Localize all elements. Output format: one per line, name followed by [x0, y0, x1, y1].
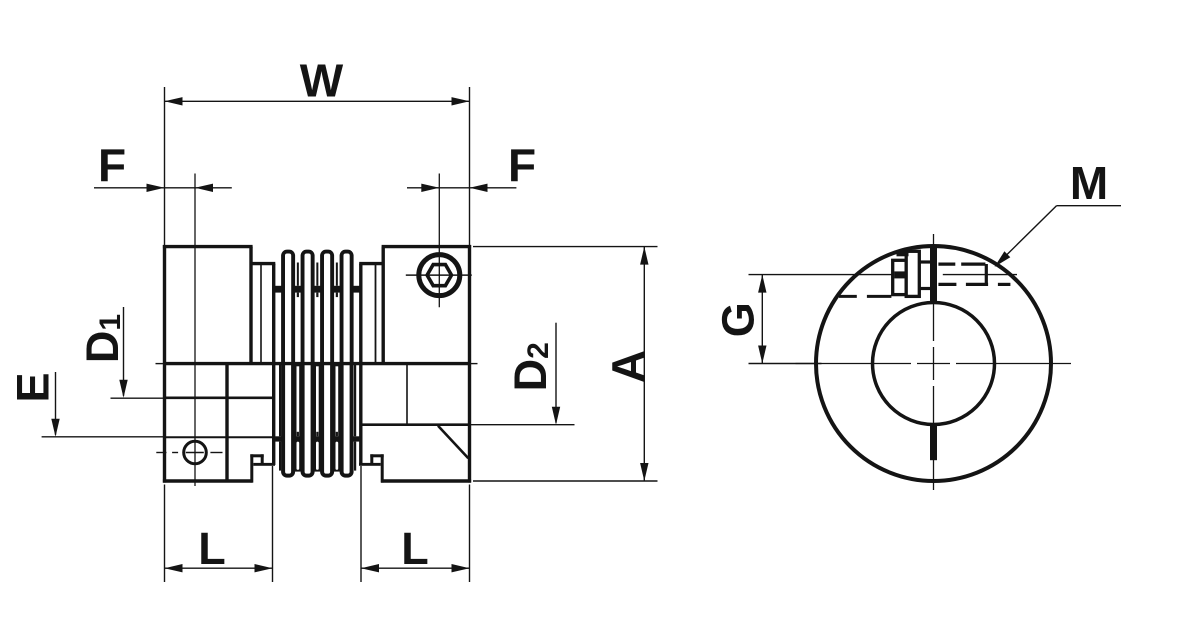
dimension D2 arrow line: [555, 323, 557, 423]
right collar inner edge (thin): [375, 264, 377, 364]
bellows upper valley fold line 2: [297, 263, 299, 286]
left clamp screw hole circle: [184, 441, 207, 464]
dimension F-left tail right: [195, 187, 232, 189]
bellows upper valley stub 2: [297, 293, 299, 298]
dimension F-left middle segment: [165, 187, 196, 189]
hidden thread hole top dashes: [938, 263, 955, 266]
bellows convolution 4 lower crest (section): [342, 364, 352, 475]
bellows upper valley band 5: [353, 286, 360, 293]
bellows lower left end section wall: [279, 364, 281, 436]
bore chamfer diagonal right hub: [438, 426, 468, 459]
right collar divider (thin, lower half): [406, 364, 408, 425]
bellows lower valley band 3: [314, 436, 321, 441]
bellows convolution 3 lower crest (section): [322, 364, 332, 475]
bellows upper valley fold line 3: [316, 263, 318, 286]
right collar hook right leg: [381, 454, 384, 482]
dimension A extension line bottom: [473, 480, 658, 482]
front view bottom slit bar: [930, 424, 937, 460]
dimension F-left tail left: [94, 187, 165, 189]
bellows convolution 2 lower crest (section): [303, 364, 313, 475]
dimension D1 extension line: [111, 397, 165, 399]
dimension W arrow right: [452, 97, 470, 105]
dimension F-left arrow left: [147, 184, 165, 192]
dimension W extension line right: [469, 87, 471, 245]
svg-text:E: E: [8, 372, 59, 402]
right collar upper-half left edge: [359, 264, 362, 364]
bore line D2 (right hub section): [361, 423, 470, 426]
dimension F-right arrow left: [421, 184, 439, 192]
centerline tick right: [470, 363, 478, 365]
left screw centerline dashes: [156, 452, 166, 454]
bellows section slot 2 lower white: [297, 442, 300, 470]
dimension D2 extension line: [470, 424, 575, 426]
left screw axis extension line: [194, 174, 196, 487]
label M leader arrow: [995, 251, 1011, 267]
left collar right edge: [272, 264, 275, 465]
right collar lower-half left edge: [359, 364, 362, 465]
screw head box: [906, 251, 919, 296]
bellows lower right end band: [353, 436, 359, 441]
right screw axis extension line: [438, 174, 440, 308]
svg-text:W: W: [300, 55, 344, 107]
dimension W arrow left: [165, 97, 183, 105]
bellows lower left end band: [275, 436, 282, 441]
front view bore circle: [873, 303, 995, 425]
hidden counterbore dash lower: [839, 295, 857, 298]
bellows section slot 4 upper white: [336, 366, 339, 436]
dimension E extension line: [42, 436, 165, 438]
bellows convolution 3 upper crest: [322, 252, 332, 363]
bellows lower valley band 4: [334, 436, 341, 441]
bellows section slot 3 lower white: [316, 442, 319, 470]
left collar hook short vertical: [261, 454, 264, 465]
dimension W line: [165, 100, 470, 102]
bellows upper valley fold line 4: [336, 263, 338, 286]
dimension L-left extension line right: [272, 466, 274, 582]
bellows lower valley band 2: [295, 436, 302, 441]
screw socket divider bar: [894, 271, 905, 278]
left hub right edge (upper half): [249, 247, 252, 364]
bore line D1 (left hub section): [165, 396, 274, 399]
left collar top edge: [251, 262, 275, 265]
dimension L-left arrow right: [255, 564, 273, 572]
dimension E arrow line: [55, 372, 57, 435]
dimension A arrow top: [640, 247, 648, 265]
front view vertical centerline: [933, 234, 935, 341]
dimension G extension line bottom: [749, 363, 822, 365]
right hub bottom edge: [381, 479, 471, 482]
bellows upper valley band 2: [295, 286, 302, 293]
left hub/collar divider (lower half): [225, 364, 228, 481]
dimension D1 arrow: [119, 380, 127, 398]
dimension A arrow bottom: [640, 463, 648, 481]
svg-text:L: L: [198, 523, 226, 574]
bellows section slot 3 upper white: [316, 366, 319, 436]
slit line left hub: [165, 436, 274, 438]
right collar hook bottom bar: [359, 463, 381, 466]
svg-text:G: G: [713, 302, 764, 337]
left collar hook bottom bar: [253, 463, 275, 466]
front view outer circle: [816, 246, 1051, 481]
bellows upper valley band 1: [275, 286, 282, 293]
bellows lower valley stub 2: [297, 432, 299, 437]
svg-text:F: F: [98, 139, 126, 191]
dimension F-left arrow right: [195, 184, 213, 192]
dimension L-right extension line right: [469, 485, 471, 583]
svg-text:F: F: [508, 139, 536, 191]
bellows convolution 2 upper crest: [303, 252, 313, 363]
dimension G line: [761, 275, 763, 364]
bellows section wall pair 4: [334, 364, 341, 471]
bellows lower valley stub 4: [336, 432, 338, 437]
dimension A line: [643, 247, 645, 481]
screw shaft bottom line: [919, 287, 930, 290]
front view horizontal centerline: [796, 363, 912, 365]
bellows section wall pair 3: [314, 364, 321, 471]
dimension L-right arrow left: [361, 564, 379, 572]
left hub top edge: [163, 245, 253, 248]
bellows section wall pair 2: [295, 364, 302, 471]
screw socket box: [893, 260, 907, 294]
centerline tick left: [156, 363, 165, 365]
hidden thread hole bottom dashes: [938, 283, 956, 286]
bellows section slot 4 lower white: [336, 442, 339, 470]
dimension F-right tail right: [470, 187, 517, 189]
svg-text:M: M: [1070, 157, 1108, 209]
right hub top edge: [382, 245, 472, 248]
front view top slit bar: [930, 247, 937, 302]
bellows convolution 1 upper crest: [283, 252, 293, 363]
label M leader line: [1057, 205, 1122, 207]
right hub right face edge: [468, 245, 471, 483]
dimension L-left line: [165, 567, 273, 569]
bellows upper valley band 4: [334, 286, 341, 293]
right hub left edge (upper half): [382, 247, 385, 364]
left hub bottom edge: [163, 479, 253, 482]
dimension D2 arrow: [552, 407, 560, 425]
dimension L-left extension line left: [164, 485, 166, 583]
bellows lower valley stub 3: [316, 432, 318, 437]
bellows section slot 2 upper white: [297, 366, 300, 436]
dimension L-right arrow right: [452, 564, 470, 572]
dimension G arrow bottom: [758, 346, 766, 364]
left collar hook left leg: [250, 454, 253, 482]
dimension F-right tail left: [407, 187, 439, 189]
bellows upper valley stub 3: [316, 293, 318, 298]
left hub left face edge: [163, 245, 166, 483]
dimension L-left arrow left: [165, 564, 183, 572]
dimension W extension line left: [164, 87, 166, 245]
right screw horizontal centerline: [406, 274, 472, 276]
svg-text:A: A: [602, 350, 654, 383]
right collar top edge: [359, 262, 383, 265]
bellows convolution 4 upper crest: [342, 252, 352, 363]
hidden counterbore dash upper (head top-left block): [897, 251, 909, 256]
dimension G extension line top (screw axis): [749, 274, 893, 276]
right clamp screw counterbore ring: [419, 255, 460, 296]
dimension D1 arrow line: [123, 307, 125, 396]
right clamp screw hex socket: [427, 265, 451, 286]
svg-text:L: L: [401, 523, 429, 574]
hidden thread hole end dash: [985, 264, 988, 286]
dimension L-right extension line left: [360, 466, 362, 582]
bellows lower right end section wall: [354, 364, 356, 436]
dimension F-right middle segment: [439, 187, 469, 189]
left collar inner edge (thin): [260, 264, 262, 364]
dimension F-right arrow right: [470, 184, 488, 192]
dimension A extension line top: [473, 246, 658, 248]
right collar hook short vertical: [370, 454, 373, 465]
screw shaft top line: [919, 260, 930, 263]
coupling centerline band: [165, 362, 470, 365]
bellows upper valley band 3: [314, 286, 321, 293]
bellows convolution 1 lower crest (section): [283, 364, 293, 475]
dimension E arrow: [51, 419, 59, 437]
right collar hook top bar: [370, 454, 383, 457]
bellows upper valley stub 4: [336, 293, 338, 298]
dimension L-right line: [361, 567, 470, 569]
left collar hook top bar: [250, 454, 263, 457]
dimension G arrow top: [758, 275, 766, 293]
